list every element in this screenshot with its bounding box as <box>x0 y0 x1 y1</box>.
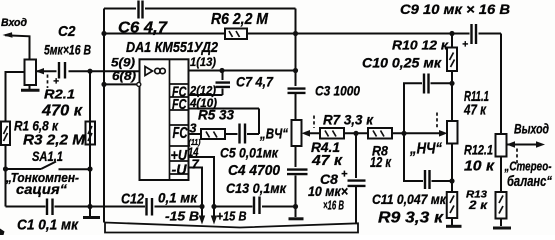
svg-text:С6 4,7: С6 4,7 <box>118 20 168 37</box>
svg-text:R12.1: R12.1 <box>464 142 493 158</box>
svg-text:С10 0,25 мк: С10 0,25 мк <box>362 55 442 71</box>
ground under C13 <box>289 217 304 220</box>
capacitor C9 <box>470 30 479 38</box>
svg-text:R5 33: R5 33 <box>198 107 234 123</box>
node: output / C3 <box>293 68 298 73</box>
wire: bottom rail with C1 and C12 <box>6 206 203 208</box>
wire: right branch vertical through R12.1 and R13 <box>500 34 502 227</box>
node: +15V <box>211 204 216 209</box>
ground at bottom rail <box>89 207 91 217</box>
svg-text:С7 4,7: С7 4,7 <box>236 74 274 90</box>
svg-text:+15 В: +15 В <box>217 209 247 224</box>
wire: loudness tap from R2.1 down to bottom rail <box>6 72 25 207</box>
wire: non-inverting input 5(9) from C2 <box>36 70 140 72</box>
svg-text:2(12): 2(12) <box>189 86 216 98</box>
capacitor C11 <box>423 178 432 186</box>
capacitor C3 <box>292 86 299 94</box>
svg-text:2 к: 2 к <box>468 198 488 212</box>
supply -15V arrow <box>201 209 203 219</box>
wire: R12.1 wiper to output <box>507 144 536 146</box>
svg-text:7: 7 <box>192 157 200 172</box>
resistor R13 <box>496 192 507 219</box>
node: bottom rail ground <box>87 204 92 209</box>
node: R8/C10/wiper junction <box>401 131 406 136</box>
svg-text:Выход: Выход <box>514 122 549 137</box>
resistor R1 <box>1 122 10 146</box>
node: C11/R9 junction <box>449 178 454 183</box>
svg-text:+: + <box>462 39 468 51</box>
capacitor C13 <box>253 203 263 211</box>
resistor R7 <box>320 128 344 139</box>
svg-text:10 к: 10 к <box>464 158 495 175</box>
node: R10 top <box>449 31 454 36</box>
wire: left feedback vertical from top loop to bottom rail <box>103 9 105 223</box>
svg-text:R3 2,2 М: R3 2,2 М <box>23 132 86 149</box>
svg-text:R2.1: R2.1 <box>44 87 75 102</box>
wire: top feedback loop (C6) <box>104 8 296 10</box>
svg-text:С4 4700: С4 4700 <box>228 163 280 179</box>
input terminal arrow <box>5 35 30 60</box>
svg-text:R10 12 к: R10 12 к <box>392 38 450 53</box>
svg-text:-U: -U <box>172 162 188 179</box>
wire: R7 R8 row <box>309 132 405 134</box>
resistor R3 <box>86 122 96 145</box>
svg-text:-15 В: -15 В <box>165 209 199 224</box>
capacitor C4 <box>292 167 299 176</box>
svg-text:С9 10 мк × 16 В: С9 10 мк × 16 В <box>400 2 510 17</box>
node A: feedback left junction <box>101 31 106 36</box>
wire: output vertical through C3, R4.1, C4 to ground <box>295 9 297 218</box>
wire: pin 2(12) to C7 <box>189 71 223 96</box>
svg-text:R9 3,3 к: R9 3,3 к <box>378 210 444 227</box>
svg-text:3: 3 <box>190 122 197 136</box>
wire: pin 4(10) over to C5 <box>189 109 260 135</box>
wire: pin 3 through R5 and C5 <box>189 133 260 135</box>
wire: main feedback rail (R6/C9) <box>104 33 501 35</box>
potentiometer R12.1 (стереобаланс) <box>496 134 507 157</box>
capacitor C5 <box>238 131 248 139</box>
capacitor C10 <box>422 80 431 88</box>
wire: pin 7 -U down to -15V <box>189 168 203 207</box>
node: input / R3 <box>87 69 92 74</box>
resistor R9 <box>447 192 458 218</box>
svg-text:R7 3,3 к: R7 3,3 к <box>323 112 374 128</box>
svg-text:+: + <box>53 77 59 88</box>
svg-text:FC: FC <box>172 96 187 113</box>
potentiometer R2.1 <box>25 60 37 86</box>
svg-text:С3 1000: С3 1000 <box>315 83 360 99</box>
node: -15V <box>199 204 204 209</box>
svg-text:6(8): 6(8) <box>112 71 136 83</box>
svg-text:„НЧ“: „НЧ“ <box>409 141 442 158</box>
node: switch left <box>3 166 8 171</box>
svg-text:47 к: 47 к <box>463 103 486 119</box>
ground under R13 <box>493 227 511 230</box>
svg-text:1(13): 1(13) <box>190 57 216 69</box>
resistor R8 <box>368 128 392 139</box>
wire: C8 vertical <box>355 133 357 222</box>
potentiometer R11.1 (НЧ) <box>447 121 458 144</box>
svg-text:„Стерео-: „Стерео- <box>504 160 552 174</box>
svg-text:С1 0,1 мк: С1 0,1 мк <box>17 218 79 234</box>
svg-text:10 мк×: 10 мк× <box>308 184 348 199</box>
node: switch right <box>87 166 92 171</box>
resistor R6 <box>225 29 247 40</box>
switch SA1.1 <box>6 162 91 170</box>
node: C13 ground <box>293 204 298 209</box>
wire: inverting input 6(8) <box>104 83 137 85</box>
svg-text:„ВЧ“: „ВЧ“ <box>259 127 288 143</box>
ground under R9 <box>451 218 453 225</box>
svg-text:сация“: сация“ <box>16 182 67 197</box>
svg-text:С11 0,047 мк: С11 0,047 мк <box>372 191 447 207</box>
potentiometer R4.1 (ВЧ) <box>292 120 302 146</box>
svg-text:С5 0,01мк: С5 0,01мк <box>220 145 279 161</box>
svg-text:470 к: 470 к <box>41 103 83 120</box>
svg-text:С12: С12 <box>121 191 145 208</box>
supply +15V arrow <box>213 209 215 219</box>
wire: R3 vertical branch <box>89 71 91 206</box>
node: output / C7 <box>219 68 224 73</box>
svg-text:12 к: 12 к <box>370 155 391 171</box>
wire: C10 horizontal and left vertical to node <box>404 83 452 181</box>
node: inverting input 6(8) <box>101 82 106 87</box>
svg-text:DA1 КМ551УД2: DA1 КМ551УД2 <box>126 40 218 56</box>
svg-text:SA1.1: SA1.1 <box>32 148 63 164</box>
svg-text:FC: FC <box>173 125 188 142</box>
wire: R11.1 wiper <box>404 132 441 134</box>
capacitor C2 <box>57 62 69 80</box>
svg-text:×16 В: ×16 В <box>323 199 344 213</box>
svg-text:С13 0,1мк: С13 0,1мк <box>226 180 287 196</box>
node: R10 / C10 <box>449 81 454 86</box>
node: R7/R8 junction <box>353 131 358 136</box>
wire: op-amp output pin 1(13) <box>189 70 296 72</box>
svg-text:47 к: 47 к <box>311 152 344 169</box>
svg-text:5мк×16 В: 5мк×16 В <box>44 43 91 58</box>
resistor R10 <box>447 48 457 72</box>
svg-text:5(9): 5(9) <box>111 58 135 70</box>
svg-text:баланс“: баланс“ <box>507 174 553 190</box>
svg-text:Вход: Вход <box>1 17 27 29</box>
wire: R10 branch vertical <box>451 34 453 219</box>
capacitor C1 <box>46 203 55 210</box>
ground under R2.1 <box>29 85 31 89</box>
wire: +15V rail with C13 to ground <box>214 206 296 208</box>
op-amp U1 DA1 body <box>137 59 189 180</box>
wire: pin 14 +U down to +15V <box>189 157 215 207</box>
capacitor C7 <box>219 80 226 89</box>
svg-text:0,1 мк: 0,1 мк <box>158 191 198 206</box>
svg-text:С2: С2 <box>58 23 76 40</box>
capacitor C6 <box>136 6 145 13</box>
svg-text:+: + <box>341 169 348 181</box>
svg-text:R6 2,2 М: R6 2,2 М <box>211 11 269 28</box>
resistor R5 <box>201 129 225 139</box>
capacitor C8 <box>352 178 360 187</box>
node B: feedback right junction <box>293 31 298 36</box>
capacitor C12 <box>145 203 155 211</box>
